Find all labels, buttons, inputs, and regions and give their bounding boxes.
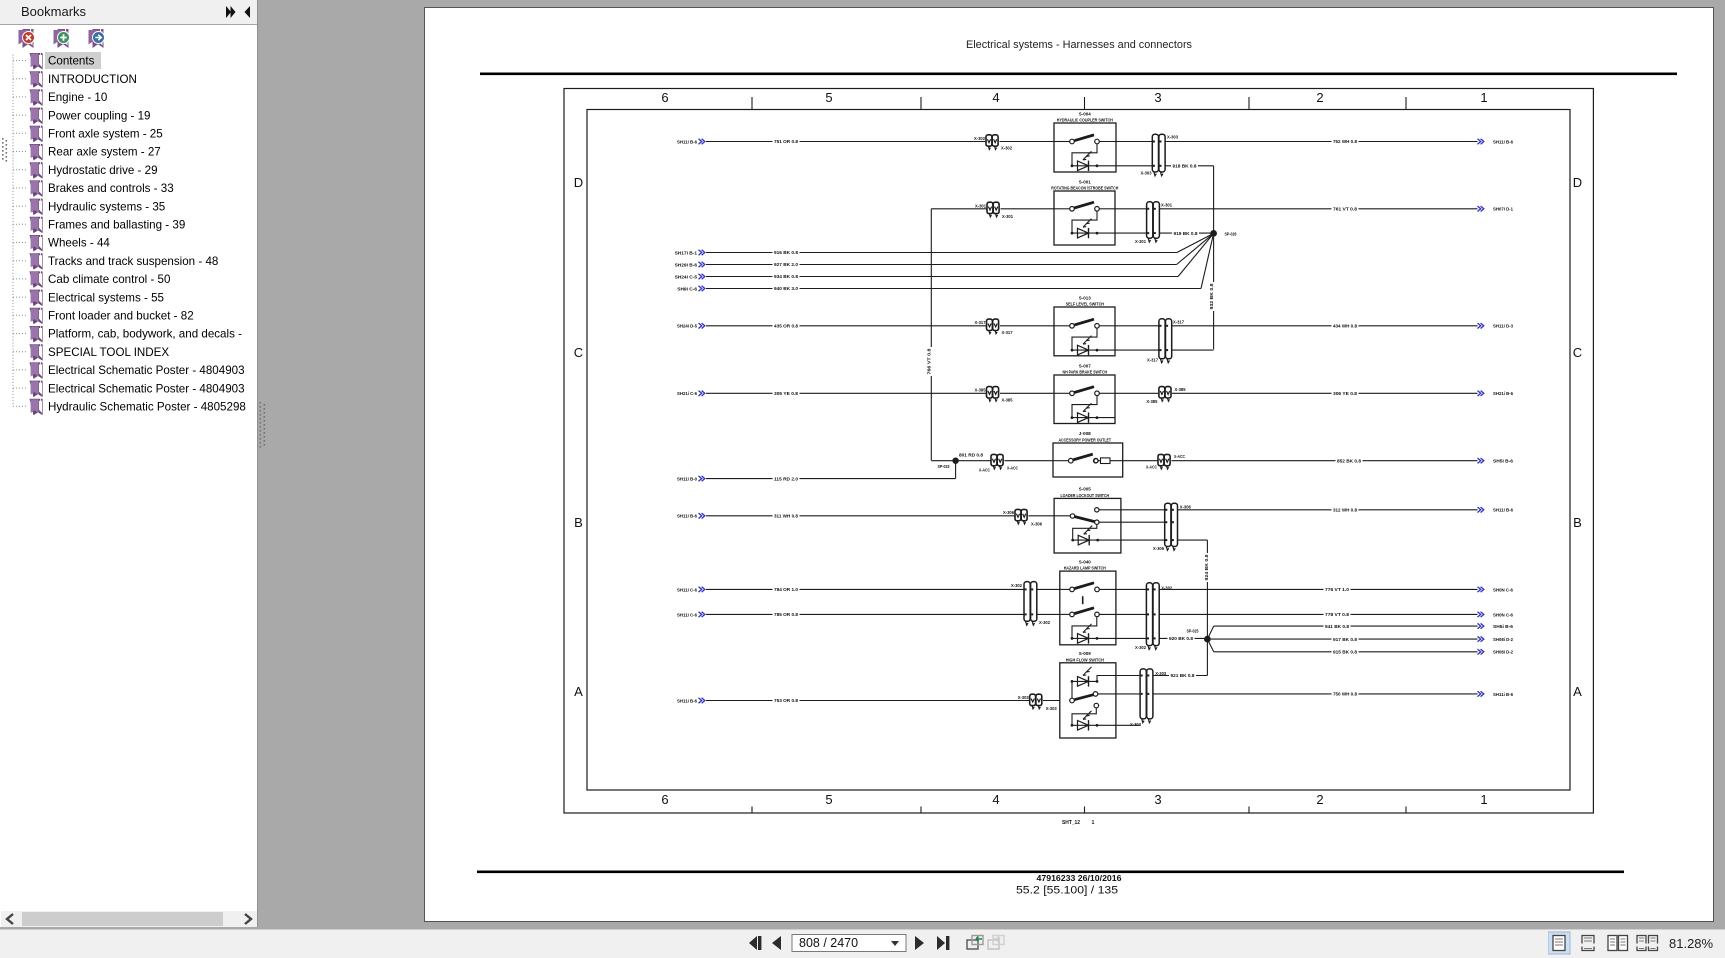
splice SP-026 bbox=[1210, 230, 1217, 237]
svg-text:5: 5 bbox=[825, 90, 832, 105]
svg-text:SHT_12: SHT_12 bbox=[1062, 820, 1080, 826]
svg-text:801 RD 0.8: 801 RD 0.8 bbox=[959, 453, 983, 459]
panel left grip bbox=[1, 138, 9, 162]
svg-text:1: 1 bbox=[1480, 792, 1487, 807]
schematic inner border bbox=[587, 110, 1570, 791]
svg-text:SH11i B-6: SH11i B-6 bbox=[1493, 692, 1513, 698]
svg-text:435 OR 0.8: 435 OR 0.8 bbox=[774, 324, 798, 330]
off-page arrow left 927 BK 2.0 bbox=[699, 262, 705, 267]
svg-text:J-008: J-008 bbox=[1079, 431, 1091, 437]
page number combo box bbox=[792, 935, 906, 952]
ROW 4 output wire 306 YE 0.8 bbox=[1172, 392, 1478, 394]
svg-text:55.2 [55.100] / 135: 55.2 [55.100] / 135 bbox=[1016, 885, 1118, 897]
svg-text:SH17i B-1: SH17i B-1 bbox=[675, 250, 698, 256]
svg-text:751 OR 0.8: 751 OR 0.8 bbox=[774, 139, 798, 145]
svg-text:306 YE 0.8: 306 YE 0.8 bbox=[1333, 391, 1357, 397]
svg-text:Hydrostatic drive - 29: Hydrostatic drive - 29 bbox=[48, 164, 158, 177]
svg-text:Hydraulic Schematic Poster - 4: Hydraulic Schematic Poster - 4805298 bbox=[48, 401, 246, 414]
svg-text:919 BK 0.8: 919 BK 0.8 bbox=[1174, 231, 1198, 237]
off-page arrow right row5 bbox=[1478, 458, 1484, 463]
wire box to X-303 bbox=[1116, 141, 1152, 143]
svg-text:X-303: X-303 bbox=[1018, 695, 1029, 701]
svg-text:X-306: X-306 bbox=[1153, 546, 1164, 552]
svg-text:X-ACC: X-ACC bbox=[1007, 466, 1018, 472]
first page button bbox=[749, 936, 761, 950]
svg-text:918 BK 0.8: 918 BK 0.8 bbox=[1173, 164, 1197, 170]
svg-text:SH11i B-6: SH11i B-6 bbox=[677, 514, 697, 520]
svg-text:115 RD 2.0: 115 RD 2.0 bbox=[774, 476, 798, 482]
svg-text:Contents: Contents bbox=[48, 55, 95, 68]
svg-text:921 BK 0.8: 921 BK 0.8 bbox=[1171, 673, 1195, 679]
high flow switch S-009 bbox=[1060, 651, 1116, 738]
svg-text:934 BK 0.8: 934 BK 0.8 bbox=[774, 274, 798, 280]
accessory power outlet J-008 bbox=[1053, 431, 1123, 477]
svg-text:A: A bbox=[1573, 684, 1582, 699]
previous page button bbox=[772, 936, 781, 950]
off-page arrow left 940 BK 3.0 bbox=[699, 286, 705, 291]
connector X-317 bbox=[986, 325, 999, 327]
switch S-001 rotating beacon bbox=[1051, 179, 1118, 245]
svg-text:SP-025: SP-025 bbox=[1187, 629, 1199, 635]
connector X-302 bbox=[1146, 588, 1160, 590]
svg-text:SH11i D-3: SH11i D-3 bbox=[1493, 324, 1513, 330]
connector X-385 bbox=[1158, 392, 1171, 394]
svg-text:Rear axle system - 27: Rear axle system - 27 bbox=[48, 146, 161, 159]
svg-text:Frames and ballasting - 39: Frames and ballasting - 39 bbox=[48, 219, 185, 232]
svg-text:X-301: X-301 bbox=[1135, 239, 1146, 245]
wire 915 BK 0.8 bbox=[1214, 651, 1478, 653]
switch S-007 park brake bbox=[1054, 363, 1115, 423]
off-page arrow right row8 bbox=[1478, 691, 1484, 696]
switch bar bbox=[1074, 695, 1093, 700]
previous view button bbox=[967, 936, 983, 950]
splice fan line 934 BK 0.8 bbox=[1178, 233, 1214, 276]
svg-text:S-007: S-007 bbox=[1079, 363, 1091, 369]
switch S-013 self level bbox=[1054, 295, 1115, 356]
svg-text:X-303: X-303 bbox=[1167, 135, 1178, 141]
off-page arrow left 785 bbox=[699, 612, 705, 617]
svg-text:S-009: S-009 bbox=[1079, 651, 1091, 657]
svg-text:47916233 26/10/2016: 47916233 26/10/2016 bbox=[1037, 874, 1122, 883]
svg-text:X-317: X-317 bbox=[975, 320, 986, 326]
svg-text:SP-033: SP-033 bbox=[938, 464, 950, 470]
svg-text:SH08i D-2: SH08i D-2 bbox=[1493, 637, 1513, 643]
svg-text:X-301: X-301 bbox=[1002, 214, 1013, 220]
off-page arrow right 778 bbox=[1478, 612, 1484, 617]
svg-text:2: 2 bbox=[1316, 90, 1323, 105]
off-page arrow right row4 bbox=[1478, 391, 1484, 396]
svg-text:Electrical Schematic Poster -: Electrical Schematic Poster - 4804903 bbox=[48, 382, 245, 395]
svg-text:2: 2 bbox=[1316, 792, 1323, 807]
svg-text:312 WH 0.8: 312 WH 0.8 bbox=[1333, 508, 1357, 514]
svg-text:6: 6 bbox=[661, 90, 668, 105]
connector X-ACC bbox=[1158, 460, 1171, 462]
off-page arrow right 776 bbox=[1478, 587, 1484, 592]
svg-text:SH9i C-6: SH9i C-6 bbox=[677, 286, 697, 292]
svg-text:SH0N C-6: SH0N C-6 bbox=[1493, 587, 1513, 593]
title rule bbox=[480, 73, 1677, 76]
connector X-303 bbox=[1152, 141, 1166, 143]
svg-text:SH24i D-5: SH24i D-5 bbox=[677, 324, 697, 330]
zone tick bottom bbox=[1248, 807, 1250, 814]
svg-text:SPECIAL TOOL INDEX: SPECIAL TOOL INDEX bbox=[48, 346, 169, 359]
zoom percentage bbox=[1669, 936, 1713, 951]
connector X-317 bbox=[1158, 325, 1172, 327]
wire 918 down to SP-026 bbox=[1213, 166, 1215, 234]
svg-text:SH11i B-6: SH11i B-6 bbox=[1493, 139, 1513, 145]
zone tick top bbox=[751, 97, 753, 110]
svg-text:752 WH 0.8: 752 WH 0.8 bbox=[1333, 139, 1357, 145]
zone tick bottom bbox=[1084, 807, 1086, 814]
connector X-ACC bbox=[991, 460, 1004, 462]
svg-text:S-001: S-001 bbox=[1079, 179, 1091, 185]
svg-text:784 OR 1.0: 784 OR 1.0 bbox=[774, 587, 798, 593]
svg-text:3: 3 bbox=[1154, 90, 1161, 105]
svg-text:X-302: X-302 bbox=[974, 136, 985, 142]
zone tick top bbox=[1405, 97, 1407, 110]
svg-text:X-302: X-302 bbox=[1135, 645, 1146, 651]
svg-text:917 BK 0.8: 917 BK 0.8 bbox=[1333, 637, 1357, 643]
switch gang link bbox=[1082, 596, 1084, 604]
svg-text:SH11i B-0: SH11i B-0 bbox=[677, 477, 697, 483]
wire 917 BK 0.8 bbox=[1211, 638, 1478, 640]
off-page arrow right row6 bbox=[1478, 507, 1484, 512]
svg-text:C: C bbox=[1573, 345, 1582, 360]
svg-text:X-303: X-303 bbox=[1046, 706, 1057, 712]
bottom toolbar bbox=[0, 929, 1725, 958]
wire 115 RD up to SP-033 bbox=[955, 461, 957, 479]
svg-text:SH5i B-6: SH5i B-6 bbox=[1493, 459, 1513, 465]
connector X-302 bbox=[986, 141, 999, 143]
switch bar bbox=[1075, 517, 1095, 522]
off-page arrow right row1 bbox=[1478, 139, 1484, 144]
svg-text:X-385: X-385 bbox=[1002, 398, 1013, 404]
svg-text:D: D bbox=[574, 175, 583, 190]
fan to 915 bbox=[1207, 639, 1213, 652]
page mode: continuous bbox=[1582, 936, 1594, 951]
svg-text:SH29i B-6: SH29i B-6 bbox=[675, 262, 698, 268]
switch S-004 hydraulic coupler bbox=[1054, 111, 1116, 172]
wire 918 BK 0.8 bbox=[1166, 165, 1214, 167]
wire 932 BK 0.8 vertical bbox=[1213, 237, 1215, 349]
svg-text:SH24i C-5: SH24i C-5 bbox=[675, 274, 698, 280]
wire 766 VT 0.8 vertical bbox=[930, 209, 932, 461]
svg-text:753 OR 0.8: 753 OR 0.8 bbox=[774, 698, 798, 704]
svg-text:SH11i C-6: SH11i C-6 bbox=[677, 587, 697, 593]
splice SP-025 bbox=[1204, 636, 1211, 643]
off-page arrow left row1 bbox=[699, 139, 705, 144]
connector X-306 bbox=[1164, 509, 1178, 511]
zone tick bottom bbox=[751, 807, 753, 814]
splice fan line 940 BK 3.0 bbox=[1201, 233, 1214, 288]
svg-text:915 BK 0.8: 915 BK 0.8 bbox=[1333, 650, 1357, 656]
svg-text:X-303: X-303 bbox=[1141, 171, 1152, 177]
off-page arrow left row6 bbox=[699, 513, 705, 518]
svg-text:Hydraulic systems - 35: Hydraulic systems - 35 bbox=[48, 200, 165, 213]
next page button bbox=[915, 936, 924, 950]
svg-text:X-302: X-302 bbox=[1001, 146, 1012, 152]
svg-text:X-ACC: X-ACC bbox=[1174, 454, 1185, 460]
svg-text:Front axle system - 25: Front axle system - 25 bbox=[48, 128, 163, 141]
wire 941 BK 0.8 bbox=[1214, 625, 1478, 627]
page mode: single page (active) bbox=[1548, 932, 1570, 954]
svg-text:B: B bbox=[574, 515, 583, 530]
svg-text:927 BK 2.0: 927 BK 2.0 bbox=[774, 262, 798, 268]
loader lockout switch S-005 bbox=[1054, 487, 1121, 553]
wire 924 BK 0.8 bbox=[1178, 539, 1207, 541]
last page button bbox=[937, 936, 949, 950]
svg-text:X-306: X-306 bbox=[1031, 521, 1042, 527]
connector X-301 bbox=[1146, 208, 1160, 210]
wire 921 up to SP-025 bbox=[1206, 643, 1208, 676]
svg-text:Cab climate control - 50: Cab climate control - 50 bbox=[48, 273, 170, 286]
zone tick top bbox=[920, 97, 922, 110]
header expand icons bbox=[222, 4, 254, 20]
panel bottom horizontal scrollbar bbox=[1, 911, 257, 927]
svg-text:S-013: S-013 bbox=[1079, 295, 1091, 301]
splice SP-033 bbox=[931, 460, 991, 462]
svg-text:750 WH 0.8: 750 WH 0.8 bbox=[1333, 692, 1357, 698]
off-page arrow left 916 BK 0.8 bbox=[699, 250, 705, 255]
splitter grip dots bbox=[259, 402, 267, 448]
page mode: two-page continuous bbox=[1637, 936, 1658, 951]
svg-text:X-385: X-385 bbox=[975, 388, 986, 394]
svg-text:Electrical systems - Harnesses: Electrical systems - Harnesses and conne… bbox=[966, 39, 1192, 51]
svg-text:X-ACC: X-ACC bbox=[1146, 465, 1157, 471]
svg-text:6: 6 bbox=[661, 792, 668, 807]
svg-text:D: D bbox=[1573, 175, 1582, 190]
ROW 2 output wire 761 VT 0.8 bbox=[1160, 208, 1478, 210]
svg-text:434 WH 0.8: 434 WH 0.8 bbox=[1333, 324, 1357, 330]
LED to pole link bbox=[1071, 681, 1073, 698]
svg-text:776 VT 1.0: 776 VT 1.0 bbox=[1325, 587, 1349, 593]
connector X-303 bbox=[1140, 675, 1154, 677]
svg-text:311 WH 0.8: 311 WH 0.8 bbox=[774, 514, 798, 520]
svg-text:5: 5 bbox=[825, 792, 832, 807]
svg-text:X-301: X-301 bbox=[1161, 203, 1172, 209]
svg-text:920 BK 0.8: 920 BK 0.8 bbox=[1169, 636, 1193, 642]
wire 920 BK 0.8 bbox=[1160, 637, 1204, 639]
svg-text:SH11i C-6: SH11i C-6 bbox=[677, 612, 697, 618]
LED wire box to X-303 bbox=[1116, 165, 1152, 167]
svg-text:S-004: S-004 bbox=[1079, 111, 1091, 117]
bookmark toolbar icons bbox=[14, 28, 114, 48]
ROW 8 output wire 750 WH 0.8 bbox=[1154, 693, 1478, 695]
svg-text:Front loader and bucket - 82: Front loader and bucket - 82 bbox=[48, 310, 194, 323]
wire 921 BK 0.8 bbox=[1154, 675, 1208, 677]
ROW 2 wire from vertical 766 to connector bbox=[931, 208, 987, 210]
off-page arrow right 941 bbox=[1478, 623, 1484, 628]
hazard lamp switch S-040 bbox=[1060, 559, 1116, 645]
splice fan line 927 BK 2.0 bbox=[1177, 233, 1214, 264]
svg-text:Electrical Schematic Poster -: Electrical Schematic Poster - 4804903 bbox=[48, 364, 245, 377]
svg-text:SH11i B-6: SH11i B-6 bbox=[677, 139, 697, 145]
bookmark tree rows bbox=[0, 50, 257, 420]
svg-text:SH21i B-6: SH21i B-6 bbox=[1493, 391, 1513, 397]
off-page arrow left 934 BK 0.8 bbox=[699, 274, 705, 279]
zone tick top bbox=[1084, 97, 1086, 110]
zone tick bottom bbox=[1405, 807, 1407, 814]
svg-text:305 YE 0.8: 305 YE 0.8 bbox=[774, 391, 798, 397]
svg-text:3: 3 bbox=[1154, 792, 1161, 807]
svg-text:X-302: X-302 bbox=[1161, 586, 1172, 592]
off-page arrow left row4 bbox=[699, 391, 705, 396]
panel header bbox=[0, 0, 257, 25]
svg-text:SP-026: SP-026 bbox=[1225, 232, 1237, 238]
page mode: two pages bbox=[1608, 936, 1628, 951]
svg-text:B: B bbox=[1573, 515, 1582, 530]
svg-text:X-385: X-385 bbox=[1146, 399, 1157, 405]
svg-text:Engine - 10: Engine - 10 bbox=[48, 91, 107, 104]
svg-text:1: 1 bbox=[1092, 820, 1095, 826]
svg-text:Platform, cab, bodywork, and d: Platform, cab, bodywork, and decals - bbox=[48, 328, 242, 341]
svg-text:916 BK 0.8: 916 BK 0.8 bbox=[774, 250, 798, 256]
svg-text:X-302: X-302 bbox=[1039, 620, 1050, 626]
svg-text:SH11i B-6: SH11i B-6 bbox=[677, 698, 697, 704]
svg-text:766 VT 0.8: 766 VT 0.8 bbox=[926, 348, 932, 374]
footer rule bbox=[477, 871, 1624, 874]
off-page arrow right 915 bbox=[1478, 649, 1484, 654]
svg-text:761 VT 0.8: 761 VT 0.8 bbox=[1333, 207, 1357, 213]
ROW 3 output wire 434 WH 0.8 bbox=[1172, 325, 1478, 327]
svg-text:924 BK 0.8: 924 BK 0.8 bbox=[1204, 554, 1210, 580]
svg-text:940 BK 3.0: 940 BK 3.0 bbox=[774, 286, 798, 292]
ROW 7 outputs bbox=[1116, 588, 1147, 590]
off-page arrow right row2 bbox=[1478, 206, 1484, 211]
svg-text:785 OR 0.8: 785 OR 0.8 bbox=[774, 612, 798, 618]
ROW 1 output wire 752 WH 0.8 bbox=[1166, 141, 1478, 143]
off-page arrow left row3 bbox=[699, 323, 705, 328]
svg-text:SH11i B-6: SH11i B-6 bbox=[1493, 508, 1513, 514]
svg-text:X-385: X-385 bbox=[1175, 387, 1186, 393]
svg-text:C: C bbox=[574, 345, 583, 360]
svg-text:1: 1 bbox=[1480, 90, 1487, 105]
svg-text:S-040: S-040 bbox=[1079, 559, 1091, 565]
svg-text:778 VT 0.8: 778 VT 0.8 bbox=[1325, 612, 1349, 618]
fan to 941 bbox=[1207, 626, 1213, 639]
svg-text:SH21i C-6: SH21i C-6 bbox=[677, 391, 697, 397]
off-page arrow left 115 RD bbox=[699, 476, 705, 481]
svg-text:X-301: X-301 bbox=[975, 203, 986, 209]
off-page arrow left 784 bbox=[699, 587, 705, 592]
svg-text:X-ACC: X-ACC bbox=[979, 468, 990, 474]
svg-text:941 BK 0.8: 941 BK 0.8 bbox=[1325, 624, 1349, 630]
svg-text:SH07i D-1: SH07i D-1 bbox=[1493, 207, 1513, 213]
svg-text:4: 4 bbox=[992, 90, 999, 105]
schematic outer border bbox=[564, 89, 1593, 814]
svg-text:Wheels - 44: Wheels - 44 bbox=[48, 237, 110, 250]
connector X-303 bbox=[1029, 700, 1042, 702]
connector X-306 bbox=[1015, 515, 1028, 517]
connector X-301 bbox=[987, 208, 1000, 210]
connector X-302 bbox=[1024, 588, 1038, 590]
svg-text:852 BK 0.8: 852 BK 0.8 bbox=[1337, 458, 1361, 464]
ROW 5 output wire 852 BK 0.8 bbox=[1172, 460, 1478, 462]
bottom LED wire to connector bbox=[1116, 724, 1140, 726]
svg-text:X-317: X-317 bbox=[1147, 358, 1158, 364]
svg-text:SH5i B-6: SH5i B-6 bbox=[1493, 624, 1513, 630]
svg-text:SH0N C-6: SH0N C-6 bbox=[1493, 612, 1513, 618]
svg-text:SH08i D-2: SH08i D-2 bbox=[1493, 650, 1513, 656]
ROW 6 output wire 312 WH 0.8 bbox=[1121, 509, 1165, 511]
wire to switch box bbox=[1000, 141, 1055, 143]
svg-text:X-317: X-317 bbox=[1173, 319, 1184, 325]
svg-text:Power coupling - 19: Power coupling - 19 bbox=[48, 109, 150, 122]
svg-text:A: A bbox=[574, 684, 583, 699]
svg-text:Brakes and controls - 33: Brakes and controls - 33 bbox=[48, 182, 174, 195]
svg-text:X-317: X-317 bbox=[1002, 330, 1013, 336]
connector X-385 bbox=[986, 392, 999, 394]
off-page arrow right row3 bbox=[1478, 323, 1484, 328]
document page bbox=[424, 7, 1714, 922]
wire 919 BK 0.8 to splice bbox=[1160, 232, 1212, 234]
svg-text:808 / 2470: 808 / 2470 bbox=[799, 936, 858, 950]
svg-text:S-005: S-005 bbox=[1079, 487, 1091, 493]
off-page arrow left row8 bbox=[699, 698, 705, 703]
off-page arrow right 917 bbox=[1478, 636, 1484, 641]
svg-text:X-306: X-306 bbox=[1003, 510, 1014, 516]
svg-text:932 BK 0.8: 932 BK 0.8 bbox=[1209, 283, 1215, 309]
next view button (disabled) bbox=[988, 936, 1004, 950]
zone tick top bbox=[1248, 97, 1250, 110]
svg-text:INTRODUCTION: INTRODUCTION bbox=[48, 73, 137, 86]
svg-text:4: 4 bbox=[992, 792, 999, 807]
wire 932 BK joins self level LED output bbox=[1172, 349, 1214, 351]
zone tick bottom bbox=[920, 807, 922, 814]
svg-text:X-302: X-302 bbox=[1011, 583, 1022, 589]
svg-text:Tracks and track suspension -: Tracks and track suspension - 48 bbox=[48, 255, 218, 268]
bookmarks panel bbox=[0, 24, 1, 927]
selected row highlight (Contents) bbox=[45, 52, 101, 69]
svg-text:Electrical systems - 55: Electrical systems - 55 bbox=[48, 291, 164, 304]
splice fan line 916 BK 0.8 bbox=[1177, 233, 1214, 252]
